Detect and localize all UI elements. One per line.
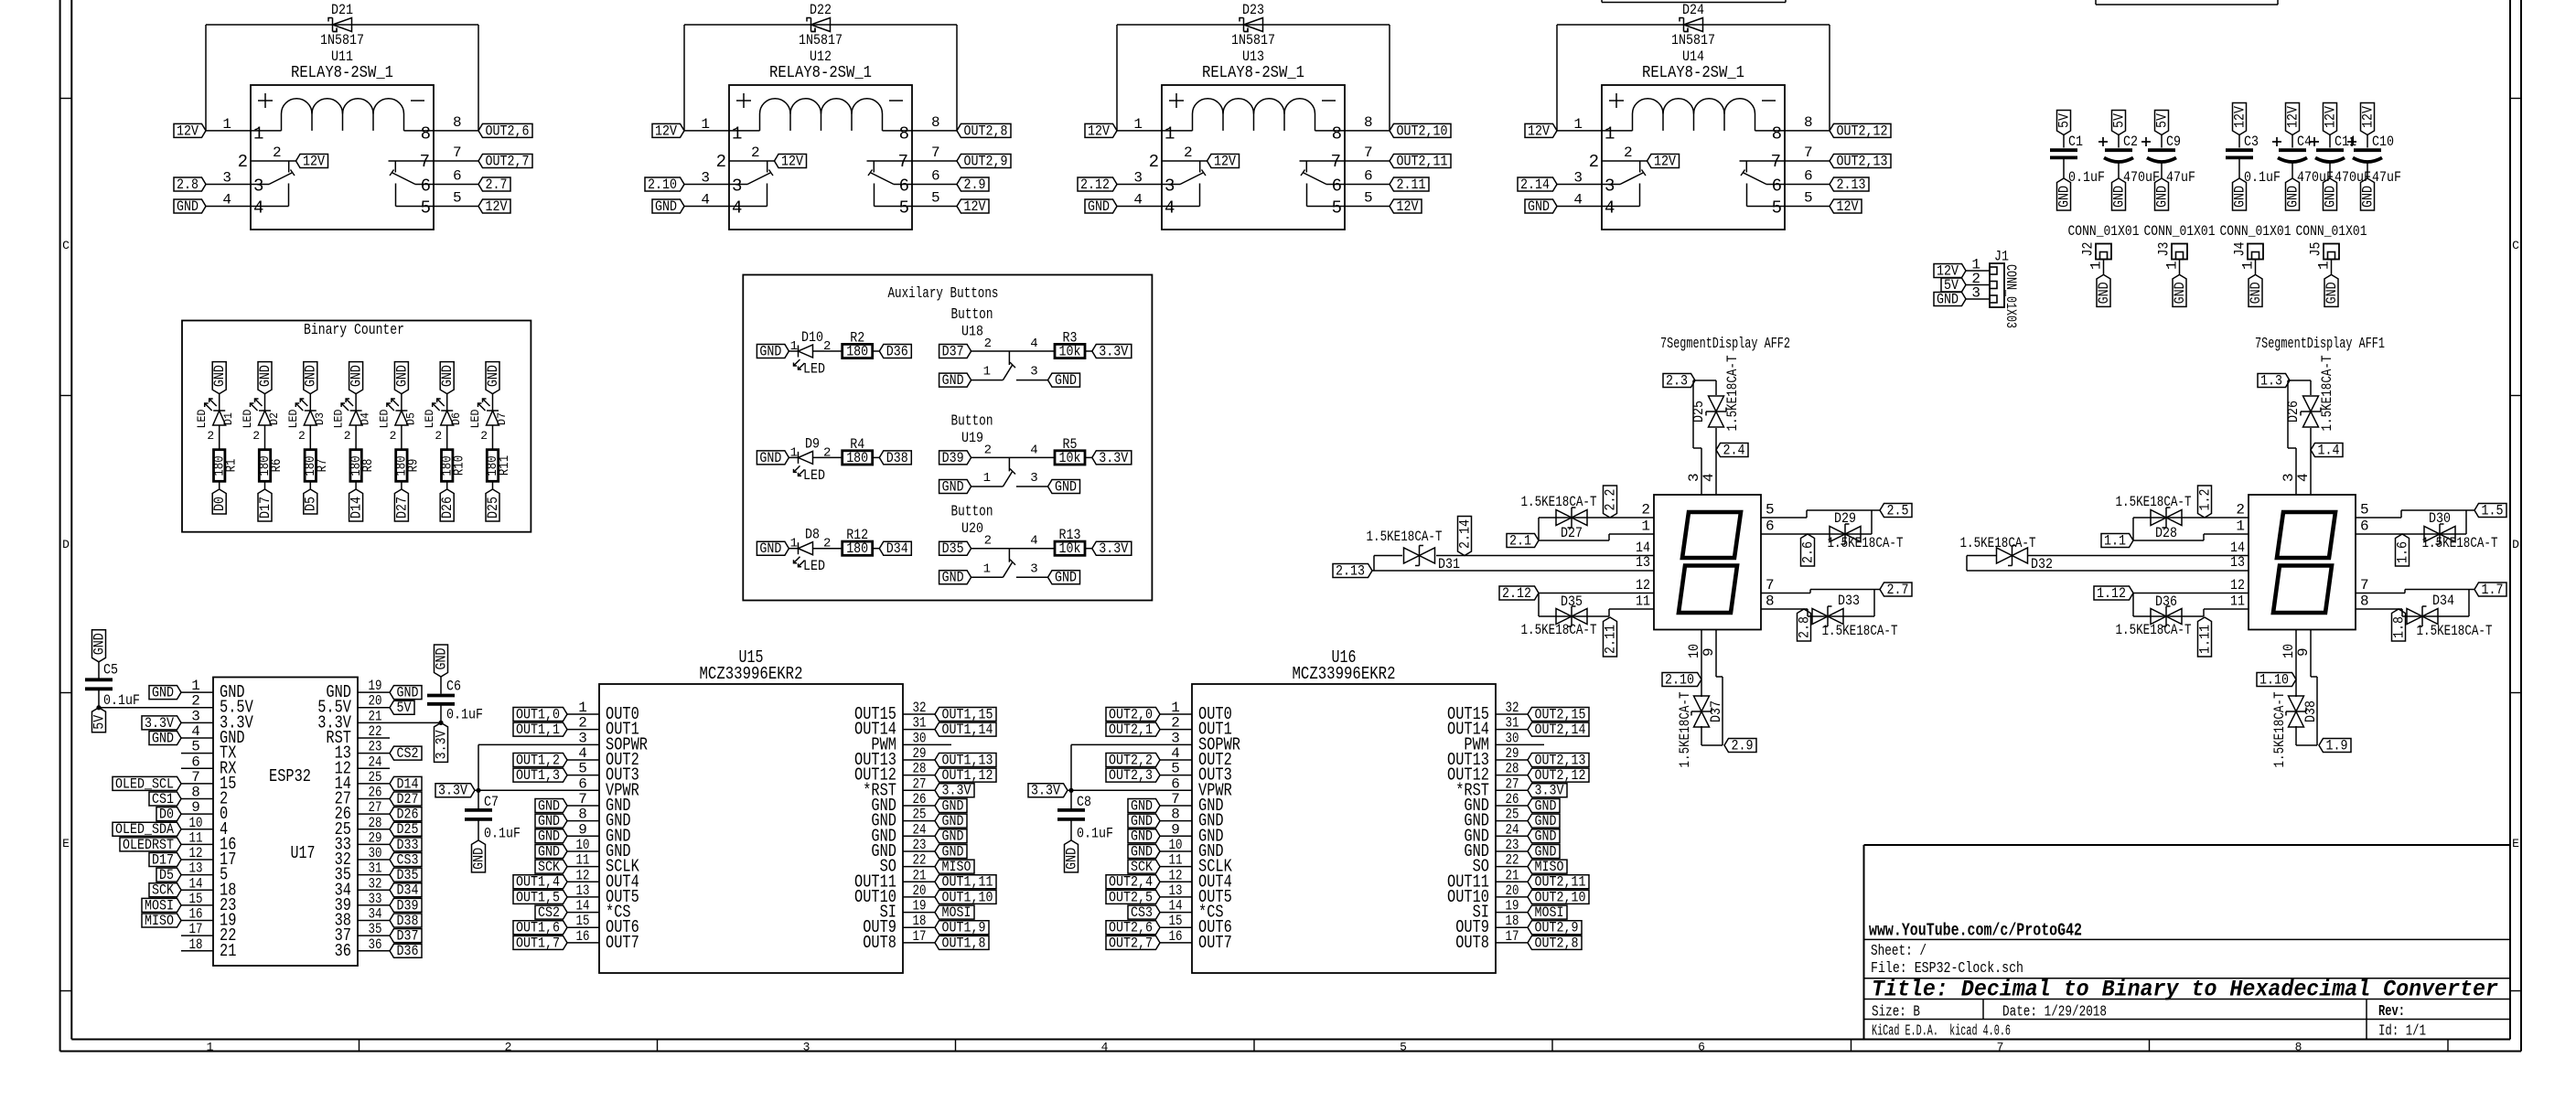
svg-text:GND: GND [1055,478,1077,495]
svg-text:GND: GND [433,648,449,670]
svg-text:GND: GND [538,813,560,829]
svg-text:C: C [2512,239,2519,252]
wire U16 pin 12 [1160,881,1192,882]
svg-text:12V: 12V [2359,105,2376,128]
wire U15 pin 7 [567,805,599,807]
net flag OUT1,5 U15 pin 13 [513,890,567,903]
net flag OUT2,11 U16 pin 21 [1528,875,1589,889]
wire U16 pin 28 [1496,775,1528,776]
svg-text:OUT8: OUT8 [863,933,896,953]
wire U17 pin 5 [181,753,213,754]
wire AFF2 pins 3 4 top [1693,380,1716,495]
power flag GND below J5 [2324,274,2338,306]
svg-text:1.5KE18CA-T: 1.5KE18CA-T [1521,494,1597,510]
svg-text:OUT7: OUT7 [1198,933,1232,953]
wire U16 pin 11 [1160,866,1192,868]
svg-text:11: 11 [1636,593,1650,610]
power flag GND J1 pin3 [1934,293,1966,306]
svg-text:D25: D25 [1690,401,1707,422]
power flag 3.3V U15 VPWR [435,784,475,797]
svg-text:1: 1 [2240,261,2257,270]
svg-text:D: D [2512,538,2519,551]
wire U12 pin1 [684,130,729,132]
wire U17 pin 4 [181,737,213,739]
wire AFF2 pins 7 8 lower right [1761,590,1880,617]
svg-text:MISO: MISO [145,913,174,929]
net flag MOSI U15 pin 19 [935,905,974,919]
wire GND to LED D7 [492,394,494,411]
svg-text:GND: GND [759,540,781,557]
svg-text:1.10: 1.10 [2259,671,2289,688]
svg-text:7: 7 [1997,1041,2004,1054]
wire U16 pin 19 [1496,912,1528,914]
svg-text:1.5KE18CA-T: 1.5KE18CA-T [1822,623,1898,639]
net flag 1.6 [2396,534,2410,566]
power flag GND below C1 [2057,178,2071,210]
net flag OUT2,12 U16 pin 28 [1528,768,1589,782]
svg-text:7: 7 [1771,152,1781,172]
wire U15 pin 1 [567,713,599,715]
svg-text:D34: D34 [2432,593,2454,609]
svg-text:OUT2,14: OUT2,14 [1535,722,1586,738]
svg-text:2: 2 [716,152,726,172]
net flag OUT2,12 U14 pin8 [1830,123,1891,137]
wire AFF1 pins 13 14 left with D32 [1967,556,2249,572]
svg-text:2.14: 2.14 [1456,519,1473,549]
wire U15 pin 28 [903,775,935,776]
svg-text:C8: C8 [1077,794,1091,810]
svg-text:Auxilary Buttons: Auxilary Buttons [888,285,999,303]
wire U14 pin6 [1785,184,1830,186]
wire U15 pin 19 [903,912,935,914]
svg-text:R11: R11 [498,455,512,476]
svg-text:D25: D25 [397,821,419,838]
resistor R3 10k [1055,344,1085,358]
svg-text:D6: D6 [449,412,463,425]
power flag 12V U11 pin1 [174,123,206,137]
net flag 1.12 [2094,586,2133,600]
svg-text:D5: D5 [403,412,417,425]
resistor R10 180 [442,450,453,482]
net flag OUT1,12 U15 pin 28 [935,768,996,782]
net flag OUT2,9 U16 pin 18 [1528,921,1582,935]
wire U12 pin6 [912,184,957,186]
net flag OUT2,2 U16 pin 4 [1106,753,1160,766]
TVS diode D27 1.5KE18CA-T [1521,494,1597,541]
wire U16 pin 5 [1160,775,1192,776]
auxilary buttons box [743,275,1152,601]
net flag CS1 U17 pin 8 [149,792,181,806]
power flag GND U15 pin 10 [535,844,567,858]
svg-text:File: ESP32-Clock.sch: File: ESP32-Clock.sch [1871,960,2023,978]
net flag MISO U17 pin 16 [142,914,181,927]
svg-text:CS2: CS2 [397,745,419,762]
svg-text:OUT1,4: OUT1,4 [516,874,560,891]
wire U15 pin 26 [903,805,935,807]
wire resistor R9 to net flag [401,481,402,489]
svg-text:D37: D37 [397,928,419,945]
svg-text:8: 8 [899,123,909,144]
button U20 [951,504,1056,578]
power flag GND U15 pin 25 [935,814,967,828]
svg-text:OUT1,8: OUT1,8 [942,935,986,951]
net flag CS2 U17 pin 23 [390,746,422,760]
svg-text:1.2: 1.2 [2196,489,2213,511]
wire U13 pin1 [1117,130,1162,132]
power flag 12V above C4 [2286,103,2300,135]
svg-text:7: 7 [1331,152,1341,172]
net flag D37 button U18 [939,345,971,358]
svg-text:12V: 12V [1654,153,1677,169]
wire U15 pin 5 [567,775,599,776]
wire U17 pin 11 [181,843,213,845]
svg-text:2.10: 2.10 [1665,671,1694,688]
svg-text:2.13: 2.13 [1837,176,1866,193]
svg-text:12V: 12V [2284,105,2301,128]
wire U15 pin 21 [903,881,935,882]
wire U11 pin4 [206,206,251,208]
svg-text:C: C [62,239,70,252]
net flag 2.9 [1724,739,1756,753]
svg-text:2: 2 [480,429,488,443]
svg-text:2.13: 2.13 [1336,562,1365,579]
svg-text:3.3V: 3.3V [1099,540,1129,557]
wire resistor R2 to flag [873,350,880,352]
net flag OUT2,10 U16 pin 20 [1528,890,1589,903]
wire U14 pin3 [1557,184,1602,186]
capacitor C6 0.1uF [427,677,483,725]
svg-text:OUT1,3: OUT1,3 [516,767,560,784]
svg-text:OUT1,9: OUT1,9 [942,920,986,936]
wire LED D9 to resistor R4 [813,456,843,458]
power flag GND above C5 [92,630,106,662]
svg-text:D: D [62,538,70,551]
power flag GND button U20 left [939,571,971,584]
svg-text:OUT1,15: OUT1,15 [942,706,993,722]
power flag GND U16 pin 26 [1528,798,1560,812]
svg-text:4: 4 [253,198,263,219]
resistor R1 180 [214,450,225,482]
wire U14 pin7 [1785,160,1830,162]
svg-text:GND: GND [177,198,199,215]
svg-text:R2: R2 [850,330,864,347]
svg-text:2: 2 [207,429,214,443]
wire U13 pin7 [1345,160,1390,162]
wire U17 pin 3 [181,722,213,723]
power flag GND above LED D6 [440,362,454,394]
wire J4 pin1 [2255,260,2257,275]
svg-text:D39: D39 [397,897,419,914]
net flag D39 U17 pin 33 [390,898,422,912]
wire U17 pin 34 [358,920,390,922]
svg-text:D35: D35 [942,540,964,557]
svg-text:CS3: CS3 [1131,904,1153,921]
svg-text:5V: 5V [2055,112,2072,128]
wire AFF2 pins 1 2 upper left [1539,518,1654,540]
svg-text:OUT2,8: OUT2,8 [1535,935,1579,951]
svg-text:MOSI: MOSI [942,904,971,921]
svg-text:8: 8 [453,114,462,131]
diode D24 1N5817 [1671,2,1715,48]
wire U11 pin5 [434,206,478,208]
resistor R9 180 [396,450,407,482]
svg-text:8: 8 [1804,114,1813,131]
svg-text:GND: GND [439,365,456,387]
svg-text:OUT1,12: OUT1,12 [942,767,993,784]
power flag GND below J3 [2173,274,2186,306]
svg-text:E: E [62,837,70,850]
svg-text:OLED_SDA: OLED_SDA [115,821,175,838]
svg-text:GND: GND [2110,186,2127,208]
net flag OUT2,6 U16 pin 15 [1106,921,1160,935]
svg-text:12: 12 [2230,577,2245,593]
svg-text:SCK: SCK [152,882,175,899]
connector J4 CONN_01X01 [2220,223,2292,270]
net flag OUT1,9 U15 pin 18 [935,921,989,935]
svg-text:2: 2 [984,534,992,549]
svg-text:12V: 12V [964,198,987,215]
svg-text:2.8: 2.8 [1796,616,1812,638]
svg-text:GND: GND [1535,797,1557,814]
svg-text:GND: GND [349,365,365,387]
svg-text:12V: 12V [655,123,678,139]
svg-text:D21: D21 [331,2,353,18]
cropped box fragment top right [2096,0,2278,5]
svg-text:5: 5 [453,190,462,207]
wire resistor R11 to net flag [492,481,494,489]
svg-text:7SegmentDisplay AFF2: 7SegmentDisplay AFF2 [1660,336,1790,353]
svg-text:2.3: 2.3 [1666,372,1688,389]
svg-text:D35: D35 [1561,593,1583,610]
svg-text:LED: LED [241,409,254,428]
wire U17 pin 29 [358,843,390,845]
svg-text:8: 8 [1364,114,1373,131]
resistor R4 180 [843,451,873,465]
svg-text:1: 1 [983,365,991,380]
svg-text:OUT2,1: OUT2,1 [1109,722,1153,738]
svg-text:U12: U12 [810,48,832,65]
svg-text:2: 2 [1641,502,1650,519]
svg-text:GND: GND [538,829,560,845]
svg-text:D25: D25 [485,497,501,519]
svg-text:GND: GND [2359,186,2376,208]
svg-text:12V: 12V [486,198,509,215]
svg-text:4: 4 [1030,337,1037,351]
net flag 1.7 [2474,583,2506,596]
svg-text:1: 1 [2316,261,2333,270]
svg-text:2.9: 2.9 [964,176,986,193]
svg-text:5: 5 [1766,502,1775,519]
wire D22 suppression loop [684,25,957,131]
net flag OUT1,2 U15 pin 4 [513,753,567,766]
svg-text:D22: D22 [810,2,832,18]
net flag 2.11 U13 pin6 [1390,177,1429,191]
net flag 1.11 [2198,617,2212,657]
svg-text:2: 2 [390,429,397,443]
svg-text:5V: 5V [91,714,107,730]
svg-text:D38: D38 [2302,700,2319,722]
svg-text:D23: D23 [1242,2,1264,18]
svg-text:LED: LED [803,558,825,574]
power flag 12V above C3 [2233,103,2247,135]
svg-text:GND: GND [942,813,964,829]
net flag MISO U15 pin 22 [935,860,974,873]
svg-text:5: 5 [931,190,940,207]
wire U15 pin 4 [567,759,599,761]
svg-text:2.9: 2.9 [1732,737,1754,754]
LED D2 [241,399,281,443]
power flag GND U16 pin 25 [1528,814,1560,828]
wire U15 pin 27 [903,789,935,791]
svg-text:1.5KE18CA-T: 1.5KE18CA-T [1677,692,1693,768]
svg-text:GND: GND [393,365,410,387]
wire LED D10 to resistor R2 [813,350,843,352]
net flag 2.2 [1604,486,1617,518]
net flag 2.7 U11 pin6 [478,177,510,191]
TVS diode D31 1.5KE18CA-T [1367,529,1461,572]
svg-text:3.3V: 3.3V [1099,450,1129,466]
svg-text:C3: C3 [2244,134,2259,150]
power flag GND U15 pin 9 [535,829,567,843]
power flag GND LED D9 [757,451,789,465]
svg-text:1.5KE18CA-T: 1.5KE18CA-T [1521,622,1597,638]
svg-text:8: 8 [2295,1041,2302,1054]
svg-text:U17: U17 [291,843,316,863]
svg-text:LED: LED [195,409,209,428]
7-segment display AFF1 [2230,336,2385,658]
net flag OLEDRST U17 pin 11 [120,838,181,851]
svg-text:D30: D30 [2429,510,2451,527]
svg-text:2.12: 2.12 [1080,176,1110,193]
net flag 1.8 [2392,609,2406,641]
capacitor C1 0.1uF [2050,134,2105,186]
wire U15 pin 16 [567,942,599,944]
svg-text:2: 2 [238,152,248,172]
svg-text:3: 3 [803,1041,810,1054]
svg-text:1.6: 1.6 [2394,541,2410,563]
net flag D0 binary counter [212,489,226,514]
net flag D14 binary counter [349,489,363,521]
svg-text:2.2: 2.2 [1602,489,1618,511]
svg-text:RELAY8-2SW_1: RELAY8-2SW_1 [1202,64,1304,82]
svg-text:D17: D17 [257,497,274,519]
svg-text:GND: GND [2096,282,2112,304]
svg-text:8: 8 [931,114,940,131]
net flag OUT2,0 U16 pin 1 [1106,708,1160,722]
LED D4 [332,399,372,443]
svg-text:3.3V: 3.3V [1535,783,1565,799]
wire U15 pin 9 [567,835,599,837]
svg-text:GND: GND [538,797,560,814]
capacitor C11 470uF [2310,134,2371,186]
svg-text:GND: GND [1055,570,1077,586]
power flag GND below J4 [2249,274,2262,306]
power flag 5V above C2 [2112,111,2126,135]
net flag OUT1,6 U15 pin 15 [513,921,567,935]
svg-text:LED: LED [803,361,825,378]
svg-text:OUT1,2: OUT1,2 [516,752,560,768]
wire AFF1 pins 5 6 upper right [2356,510,2474,534]
wire D24 suppression loop [1557,25,1830,131]
svg-text:1: 1 [790,445,798,460]
connector J5 CONN_01X01 [2296,223,2367,270]
wire U17 pin 27 [358,813,390,815]
wire U11 pin7 [434,160,478,162]
7-segment display AFF2 [1636,336,1790,658]
svg-text:5: 5 [1400,1041,1407,1054]
svg-text:D5: D5 [159,867,174,883]
power flag GND above LED D7 [486,362,499,394]
power flag GND below C10 [2361,178,2375,210]
svg-text:D27: D27 [397,791,419,807]
net flag OUT2,15 U16 pin 32 [1528,708,1589,722]
svg-text:CS2: CS2 [538,904,560,921]
driver IC U15 MCZ33996EKR2 [576,647,927,973]
power flag 12V U12 pin1 [652,123,684,137]
wire U15 pin 23 [903,850,935,852]
svg-text:2.1: 2.1 [1509,532,1531,549]
power flag 3.3V U16 pin 27 [1528,784,1567,797]
svg-text:5: 5 [1772,198,1782,219]
svg-text:8: 8 [1772,123,1782,144]
power flag GND above LED D2 [258,362,272,394]
power flag 5V U17 pin 20 [390,700,414,714]
svg-text:1.5: 1.5 [2482,502,2504,519]
svg-text:OUT2,10: OUT2,10 [1535,889,1586,905]
svg-text:4: 4 [1701,473,1717,482]
wire U16 pin 32 [1496,713,1528,715]
wire U16 pin 8 [1160,820,1192,822]
power flag GND below C4 [2286,178,2300,210]
wire AFF1 pins 11 12 lower left [2133,593,2249,617]
connector J3 CONN_01X01 [2144,223,2216,270]
power flag GND button U18 right [1048,373,1080,387]
power flag GND U17 pin 4 [149,731,181,744]
button U18 [951,306,1056,380]
wire U16 pin 27 [1496,789,1528,791]
net flag OUT1,10 U15 pin 20 [935,890,996,903]
svg-text:OUT2,12: OUT2,12 [1837,123,1888,139]
wire AFF1 pins 7 8 lower right [2356,590,2474,617]
net flag D26 U17 pin 27 [390,807,422,821]
TVS diode D35 1.5KE18CA-T [1521,593,1597,638]
wire resistor R13 to flag [1085,548,1092,550]
resistor R11 180 [487,450,498,482]
svg-text:1.9: 1.9 [2326,737,2348,754]
wire U15 pin 31 [903,729,935,731]
net flag 2.13 [1333,564,1372,578]
wire resistor R7 to net flag [309,481,311,489]
svg-text:OUT2,9: OUT2,9 [964,153,1008,169]
svg-text:GND: GND [759,343,781,359]
wire AFF1 pins 1 2 upper left [2133,518,2249,540]
svg-text:3: 3 [1030,561,1037,576]
wire U17 pin 30 [358,859,390,861]
wire U16 SOPWR VPWR 3.3V rail [1068,744,1192,793]
svg-text:2.10: 2.10 [648,176,677,193]
svg-text:1N5817: 1N5817 [799,32,843,48]
wire U15 SOPWR VPWR 3.3V rail [475,744,599,793]
svg-text:2: 2 [273,144,282,161]
svg-text:2: 2 [1184,144,1193,161]
TVS diode D33 1.5KE18CA-T [1812,593,1898,639]
svg-text:OUT1,1: OUT1,1 [516,722,560,738]
power flag 12V U13 pin2 [1207,155,1240,168]
svg-text:2.7: 2.7 [1887,582,1909,598]
wire U17 pin 7 [181,783,213,785]
wire U13 pin6 [1345,184,1390,186]
svg-text:12V: 12V [1528,123,1551,139]
